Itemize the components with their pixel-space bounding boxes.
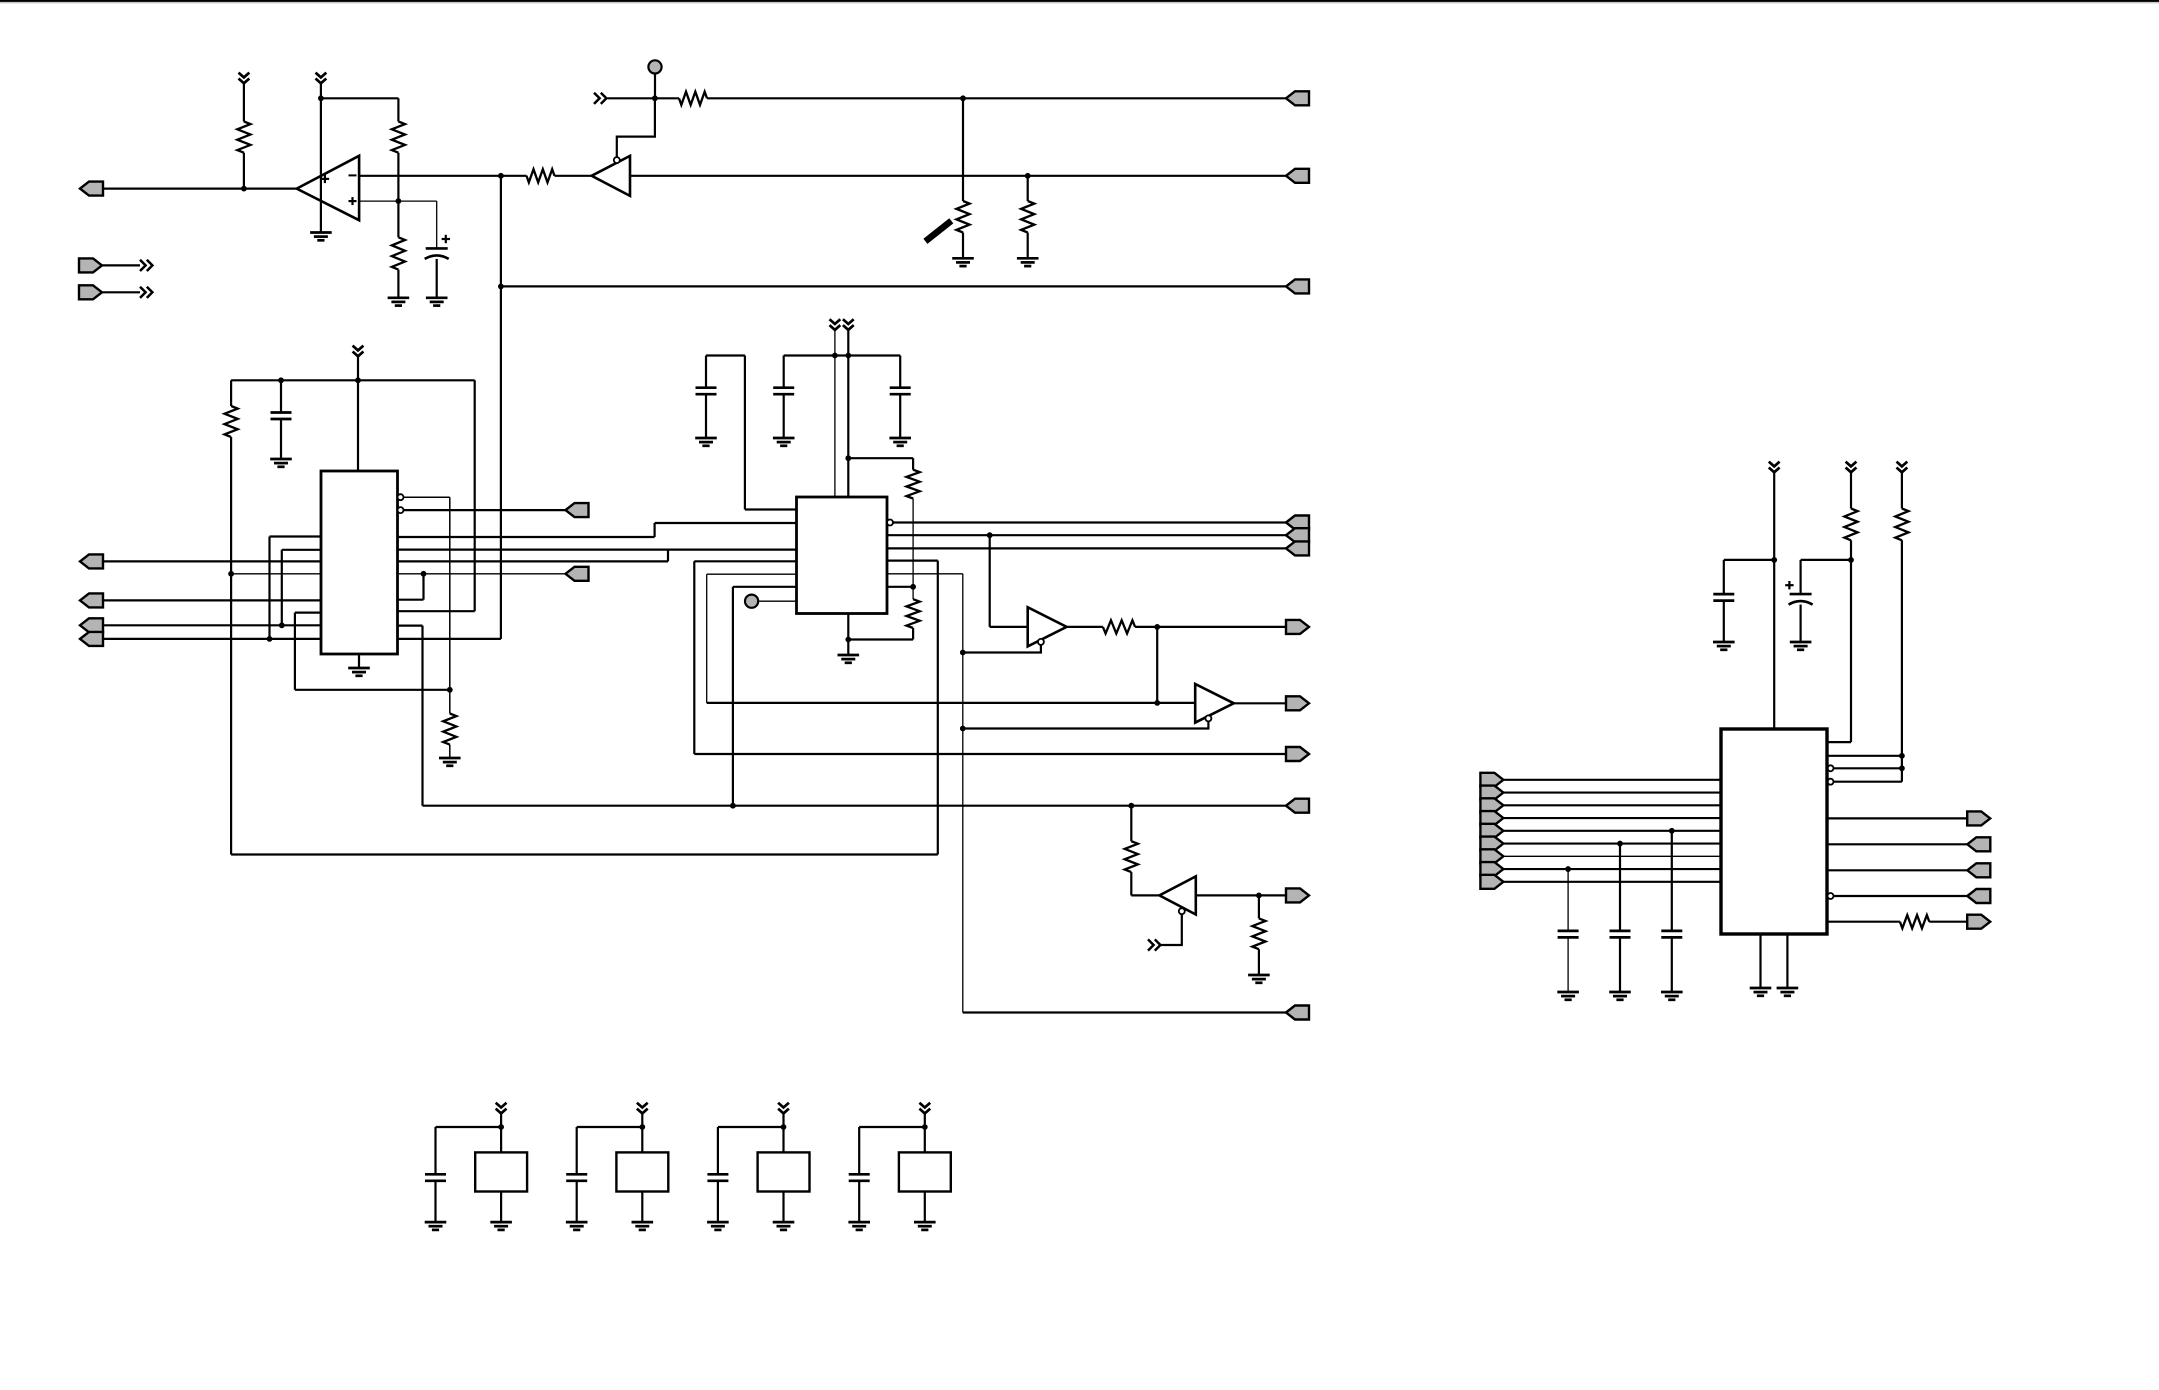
ground C23 xyxy=(707,1222,729,1230)
wire C1 top lead xyxy=(436,201,438,248)
wire netC long xyxy=(501,285,1286,287)
connector J10 D (left) xyxy=(80,632,103,646)
resistor R10 xyxy=(907,470,920,499)
ic U3 body xyxy=(321,471,398,654)
node netA/enable junction xyxy=(652,95,658,101)
wire U7 bubble drop xyxy=(1161,914,1182,945)
wire U93 gnd lead xyxy=(782,1192,784,1223)
ground U92 xyxy=(632,1222,654,1230)
capacitor C24 xyxy=(849,1174,870,1181)
wire IC3 gnd lead 1 xyxy=(1759,934,1761,988)
connector J6 input (left) xyxy=(79,285,102,299)
wire pin r638 stub xyxy=(398,638,501,640)
wire C21 gnd lead xyxy=(434,1181,436,1222)
power chevron VCC1 xyxy=(239,73,250,84)
ic U4 inverted output bubble xyxy=(887,520,893,526)
connector J18 (right) xyxy=(1286,620,1309,634)
wire net y806 long xyxy=(423,805,1287,807)
connector J25 (right) xyxy=(1967,863,1990,877)
wire VCC2 supply xyxy=(320,83,322,232)
wire C5 gnd lead xyxy=(899,395,901,438)
connector J22g (IC3 input stack) xyxy=(1480,849,1503,863)
resistor R2 xyxy=(392,122,405,153)
resistor R5 xyxy=(679,92,707,105)
wire B1 input xyxy=(990,626,1028,628)
wire decouple rail xyxy=(784,354,901,356)
ic U8 bubble pin 896 xyxy=(1828,893,1834,899)
wire R16 down xyxy=(1901,540,1903,781)
wire vertical netB tap xyxy=(500,176,502,639)
regulator U94 body xyxy=(899,1152,951,1191)
regulator U93 body xyxy=(758,1152,810,1191)
capacitor C3 xyxy=(696,388,717,395)
wire pin l549 drop xyxy=(281,550,283,626)
wire C3 top link xyxy=(706,354,745,356)
op-amp U1 xyxy=(297,156,359,220)
ic U8 bubble pin 768 xyxy=(1828,765,1834,771)
connector J21 (right) xyxy=(1286,888,1309,902)
ground C7 xyxy=(1713,642,1735,650)
wire C4 lead xyxy=(783,356,785,388)
wire IC3 input 7 xyxy=(1503,855,1721,857)
ground IC2 xyxy=(838,655,860,663)
wire R14 to ground xyxy=(1258,949,1260,975)
wire op-amp output xyxy=(103,188,297,190)
wire J5 to flag xyxy=(102,264,140,266)
wire IC3 input 6 xyxy=(1503,842,1721,844)
wire thin net l573 xyxy=(231,573,321,575)
wire C7 gnd lead xyxy=(1723,601,1725,642)
capacitor C23 xyxy=(707,1174,728,1181)
wire C2 to ground xyxy=(280,420,282,460)
connector J1 (op-amp output, left) xyxy=(80,182,103,196)
wire C7 link xyxy=(1724,559,1774,561)
resistor R17 xyxy=(1900,915,1929,928)
power chevron VCC6 xyxy=(1769,462,1780,473)
node supply/feedback junction xyxy=(318,95,324,101)
wire net y535 xyxy=(887,534,1286,536)
wire pin l574 stub thin xyxy=(707,573,797,575)
ground R9 xyxy=(439,758,461,766)
wire bubble1 lower xyxy=(449,690,451,714)
wire pin r573 stub thin xyxy=(887,573,963,575)
border top bar xyxy=(0,0,2159,3)
wire op-amp + input xyxy=(359,200,437,202)
node y627/y703 tap xyxy=(1154,624,1160,630)
buffer U6 enable bubble xyxy=(1205,715,1211,721)
ic U8 body xyxy=(1721,729,1827,934)
wire VDD1 cap link xyxy=(436,1126,502,1128)
resistor R16 xyxy=(1895,509,1908,541)
wire VCC8 lead xyxy=(1901,472,1903,509)
wire C xyxy=(103,624,321,626)
node y806/R13 junction xyxy=(1128,803,1134,809)
wire C14 lead xyxy=(858,1127,860,1174)
node cap C10 tap xyxy=(1565,866,1571,872)
wire U6 bubble drop xyxy=(963,721,1209,728)
wire W1 seg1 xyxy=(398,536,655,538)
connector J5 input (left) xyxy=(79,258,102,272)
wire r599 stub xyxy=(398,599,424,601)
capacitor C10 xyxy=(1558,931,1579,938)
wire pin r560 stub xyxy=(887,559,938,561)
connector J22f (IC3 input stack) xyxy=(1480,837,1503,851)
net flag J6 xyxy=(140,287,152,298)
node netC junction xyxy=(498,284,504,290)
connector J27 (right) xyxy=(1967,915,1990,929)
wire net y627 xyxy=(1135,626,1286,628)
connector J13 (right) xyxy=(1286,747,1309,761)
ground R14 xyxy=(1248,975,1270,983)
node R8/thin net junction xyxy=(228,571,234,577)
node l587 on y806 xyxy=(730,803,736,809)
inverter U7 enable bubble xyxy=(1179,908,1185,914)
wire R15 down xyxy=(1850,540,1852,742)
inverter U2 enable bubble xyxy=(614,157,620,163)
node VDD1 tap xyxy=(498,1124,504,1130)
node VCC4 rail xyxy=(832,353,838,359)
wire pin l587 stub xyxy=(733,586,797,588)
wire IC3 input 2 xyxy=(1503,791,1721,793)
wire IC3 input 5 xyxy=(1503,830,1721,832)
connector J7 A (left) xyxy=(80,554,103,568)
node U7/R14 junction xyxy=(1256,893,1262,899)
wire IC3 input 8 xyxy=(1503,868,1721,870)
node enable/B2 xyxy=(960,726,966,732)
wire VDD4 cap link xyxy=(859,1126,925,1128)
connector J20 (right) xyxy=(1286,799,1309,813)
wire C6 gnd lead xyxy=(1799,605,1801,642)
ground C21 xyxy=(425,1222,447,1230)
wire A xyxy=(103,560,321,562)
connector J22h (IC3 input stack) xyxy=(1480,862,1503,876)
wire U2 output netB xyxy=(630,175,1286,177)
node pin l549 on wireC xyxy=(279,622,285,628)
connector J14 (right) xyxy=(1286,516,1309,530)
node VDD4 tap xyxy=(922,1124,928,1130)
net flag U7 enable xyxy=(1148,939,1160,950)
ground C24 xyxy=(848,1222,870,1230)
connector J22b (IC3 input stack) xyxy=(1480,786,1503,800)
ground R7 xyxy=(1017,258,1039,266)
power chevron VCC3 (IC1) xyxy=(353,346,364,357)
connector J22a (IC3 input stack) xyxy=(1480,773,1503,787)
wire C24 gnd lead xyxy=(858,1181,860,1222)
wire R4 to U2 output xyxy=(555,175,592,177)
wire B1 input drop xyxy=(989,535,991,627)
wire C12 lead xyxy=(576,1127,578,1174)
buffer U5 xyxy=(1028,607,1067,646)
wire VCC3 to IC1 xyxy=(357,356,359,471)
node R15/C6 xyxy=(1848,557,1854,563)
wire IC3 input 1 xyxy=(1503,779,1721,781)
wire C3 gnd lead xyxy=(705,395,707,438)
op-amp U1 minus input label xyxy=(349,174,357,176)
wire C6 link xyxy=(1801,559,1851,561)
wire C5 lead xyxy=(899,356,901,388)
capacitor C1 plus sign xyxy=(442,235,450,243)
ground C5 xyxy=(889,438,911,446)
power chevron VCC5 (IC2) xyxy=(843,319,854,330)
ground C8 xyxy=(1661,992,1683,1000)
capacitor C9 xyxy=(1610,931,1631,938)
wire R10/R11 mid xyxy=(912,499,914,600)
wire R11 bottom xyxy=(912,628,914,640)
ground C1 xyxy=(426,298,448,306)
wire C13 lead xyxy=(717,1127,719,1174)
wire VCC3 rail xyxy=(231,379,475,381)
wire W3 seg1 xyxy=(398,560,669,562)
resistor R13 xyxy=(1125,841,1138,872)
connector J3 netB (right) xyxy=(1286,169,1309,183)
wire netA left xyxy=(608,97,680,99)
wire R1 to output node xyxy=(243,153,245,189)
wire R17 to J27 xyxy=(1929,921,1967,923)
wire net y754 xyxy=(694,753,1286,755)
power chevron VCC2 (op-amp supply) xyxy=(316,73,327,84)
wire C10 gnd lead xyxy=(1567,938,1569,992)
power chevron VCC8 xyxy=(1897,462,1908,473)
wire netA long xyxy=(707,97,1286,99)
wire R3 to ground xyxy=(397,270,399,298)
wire U6 out xyxy=(1234,702,1286,704)
ground IC3 a xyxy=(1750,988,1772,996)
node VCC6/C7 xyxy=(1771,557,1777,563)
wire net y854 xyxy=(231,853,938,855)
wire C9 gnd lead xyxy=(1619,938,1621,992)
wire y627 to y703 drop xyxy=(1156,627,1158,703)
wire B xyxy=(103,599,321,601)
ground C9 xyxy=(1609,992,1631,1000)
wire W1 step xyxy=(653,523,655,537)
power chevron VDD3 xyxy=(778,1103,789,1114)
connector J17 (right) xyxy=(1286,1006,1309,1020)
wire pin l561 drop xyxy=(693,561,695,754)
wire TP2 to pin xyxy=(758,600,796,602)
trimmer slash mark xyxy=(925,221,951,242)
wire net y522 xyxy=(893,521,1286,523)
wire R11 to gnd net xyxy=(848,638,913,640)
wire U94 gnd lead xyxy=(924,1192,926,1223)
wire IC3 gnd lead 2 xyxy=(1786,934,1788,988)
wire R8 top lead xyxy=(230,380,232,406)
connector J2 netA (right) xyxy=(1286,91,1309,105)
buffer U6 xyxy=(1195,684,1234,723)
wire C8 gnd lead xyxy=(1671,938,1673,992)
capacitor C6 polarized xyxy=(1789,594,1813,605)
ground C10 xyxy=(1557,992,1579,1000)
wire C4 gnd lead xyxy=(783,395,785,438)
wire R13 to U7 out xyxy=(1131,894,1159,896)
ground op-amp supply xyxy=(310,233,332,241)
node pin l536 on wireD xyxy=(267,636,273,642)
wire VDD4 drop xyxy=(924,1113,926,1152)
wire R7 top lead xyxy=(1027,176,1029,201)
wire net y548 xyxy=(887,547,1286,549)
node l612/R9 junction xyxy=(447,687,453,693)
wire R2 to node xyxy=(397,153,399,201)
resistor R8 xyxy=(225,406,238,437)
wire thin net r573 xyxy=(398,573,566,575)
wire VCC5 drop xyxy=(847,330,849,498)
wire bubble1 net xyxy=(404,496,450,498)
wire pin l536 stub xyxy=(270,535,322,537)
wire U5 out xyxy=(1067,626,1103,628)
wire pin r560 drop xyxy=(937,561,939,855)
node C2 junction xyxy=(278,377,284,383)
op-amp U1 plus input label xyxy=(349,197,357,205)
wire pin r768 stub xyxy=(1834,767,1902,769)
wire C3 net to pin xyxy=(745,508,797,510)
resistor R6 xyxy=(956,201,969,233)
wire pin l561 stub xyxy=(694,560,796,562)
wire U2 bubble to enable net xyxy=(617,98,655,157)
power chevron VDD1 xyxy=(496,1103,507,1114)
connector J4 netC (right) xyxy=(1286,279,1309,293)
wire pin l574 drop xyxy=(706,574,708,703)
resistor R4 xyxy=(527,169,555,182)
wire VCC1 to R1 xyxy=(243,83,245,122)
wire U92 gnd lead xyxy=(641,1192,643,1223)
connector J11 (mid) xyxy=(566,503,589,517)
connector J8 B (left) xyxy=(80,593,103,607)
wire C23 gnd lead xyxy=(717,1181,719,1222)
wire pin l536 drop xyxy=(268,537,270,639)
resistor R14 xyxy=(1252,918,1265,949)
ground C3 xyxy=(695,438,717,446)
node r573 junction xyxy=(421,571,427,577)
wire R7 to ground xyxy=(1027,233,1029,259)
wire to IC1 pin r611 xyxy=(398,610,475,612)
wire VDD2 drop xyxy=(641,1113,643,1152)
wire VDD3 cap link xyxy=(718,1126,784,1128)
wire IC1 gnd lead xyxy=(358,654,360,668)
wire pin l612 drop xyxy=(294,613,296,690)
wire VCC4 drop thin xyxy=(834,330,836,498)
connector J15 (right) xyxy=(1286,528,1309,542)
connector J16 (right) xyxy=(1286,541,1309,555)
wire pin r625 stub xyxy=(398,624,423,626)
wire C22 gnd lead xyxy=(576,1181,578,1222)
wire pin r781 stub xyxy=(1834,781,1902,783)
wire pin out818 xyxy=(1828,817,1967,819)
capacitor C22 xyxy=(566,1174,587,1181)
inverter U2 xyxy=(592,156,630,196)
wire J6 to flag xyxy=(102,291,140,293)
connector J22i (IC3 input stack) xyxy=(1480,875,1503,889)
node enable/B1 xyxy=(960,650,966,656)
connector J22d (IC3 input stack) xyxy=(1480,811,1503,825)
capacitor C6 plus sign xyxy=(1785,581,1793,589)
wire bubble1 drop xyxy=(449,497,451,690)
node y703 junction xyxy=(1154,700,1160,706)
node feedback/netB junction xyxy=(498,173,504,179)
wire R6 to ground xyxy=(962,233,964,259)
node VCC5 rail xyxy=(845,353,851,359)
wire pin r755 stub xyxy=(1828,755,1902,757)
node cap C8 tap xyxy=(1669,828,1675,834)
connector J12 (mid) xyxy=(566,567,589,581)
wire bubble2 to J11 xyxy=(404,509,566,511)
capacitor C4 xyxy=(773,388,794,395)
ic U3 inverted output bubble 2 xyxy=(398,507,404,513)
node VDD2 tap xyxy=(639,1124,645,1130)
net flag input A xyxy=(594,93,606,104)
wire R14 top lead xyxy=(1258,895,1260,918)
wire D xyxy=(103,638,321,640)
wire pin in844 xyxy=(1828,843,1968,845)
wire C8 lead xyxy=(1671,831,1673,931)
node cap C9 tap xyxy=(1617,841,1623,847)
wire R3 top lead xyxy=(397,201,399,237)
ic U8 bubble pin 781 xyxy=(1828,779,1834,785)
resistor R12 xyxy=(1103,620,1135,633)
regulator U91 body xyxy=(475,1152,527,1191)
wire R15 to pin xyxy=(1828,741,1852,743)
ic U3 inverted output bubble 1 xyxy=(398,494,404,500)
wire net y703 xyxy=(707,702,1195,704)
connector J22e (IC3 input stack) xyxy=(1480,824,1503,838)
capacitor C7 xyxy=(1713,594,1734,601)
node y535 buffer tap xyxy=(987,532,993,538)
connector J22c (IC3 input stack) xyxy=(1480,798,1503,812)
wire pin r586 stub xyxy=(887,586,913,588)
connector J9 C (left) xyxy=(80,618,103,632)
capacitor C5 xyxy=(890,388,911,395)
wire pin out922 lead xyxy=(1828,921,1900,923)
power chevron VCC7 xyxy=(1846,462,1857,473)
net flag J5 xyxy=(140,260,152,271)
wire C2 top lead xyxy=(280,380,282,412)
wire pin l612 stub xyxy=(295,611,321,613)
ground C4 xyxy=(773,438,795,446)
wire U7 input xyxy=(1196,894,1286,896)
wire pin r625 drop xyxy=(421,626,423,806)
wire R13 bottom lead xyxy=(1130,872,1132,895)
wire enable drop thin xyxy=(962,574,964,1013)
ground C22 xyxy=(566,1222,588,1230)
wire VCC7 lead xyxy=(1850,472,1852,509)
wire VDD3 drop xyxy=(782,1113,784,1152)
wire R2 top lead xyxy=(397,98,399,121)
wire W1 seg2 xyxy=(655,522,797,524)
wire C3 lead xyxy=(705,356,707,388)
wire R6 top lead xyxy=(962,98,964,201)
wire R13 top lead xyxy=(1130,806,1132,842)
node VCC3 rail junction xyxy=(355,377,361,383)
wire pin l587 drop xyxy=(732,587,734,806)
wire pin in896 xyxy=(1834,895,1968,897)
wire C3 net drop xyxy=(744,356,746,510)
node r768 junction xyxy=(1899,765,1905,771)
wire pin in870 xyxy=(1828,869,1968,871)
ground IC1 xyxy=(348,668,370,676)
connector J26 (right) xyxy=(1967,889,1990,903)
wire rail right drop xyxy=(474,380,476,611)
wire IC3 input 4 xyxy=(1503,817,1721,819)
wire U5 bubble drop xyxy=(963,645,1041,653)
node R2/R3/C1 junction xyxy=(396,198,402,204)
regulator U92 body xyxy=(616,1152,668,1191)
connector J19 (right) xyxy=(1286,696,1309,710)
ground C2 xyxy=(270,459,292,467)
ground U91 xyxy=(490,1222,512,1230)
resistor R3 xyxy=(392,237,405,269)
node netA/R6 junction xyxy=(960,95,966,101)
wire supply to R2 top xyxy=(321,97,399,99)
wire R10 lead xyxy=(912,458,914,470)
capacitor C1 polarized xyxy=(425,248,449,259)
